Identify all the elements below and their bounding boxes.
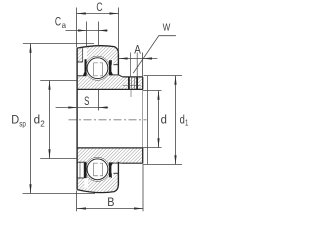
- svg-text:a: a: [62, 20, 67, 30]
- dimension line d1: [175, 76, 177, 165]
- seal lower left: [84, 163, 87, 179]
- inner ring land edges: [77, 75, 86, 77]
- svg-text:C: C: [55, 17, 61, 29]
- arrow d1 top: [174, 76, 176, 85]
- arrow C left: [77, 12, 86, 14]
- svg-text:2: 2: [40, 118, 45, 128]
- ball upper: [87, 58, 108, 79]
- dimension line B: [77, 208, 144, 210]
- extension line d1 top: [144, 75, 183, 77]
- extension line d top: [143, 90, 162, 92]
- collar / inner ring interface: [123, 84, 141, 86]
- extension line A right: [142, 53, 144, 77]
- recess below left shoulder upper: [78, 62, 83, 75]
- arrow S left: [68, 106, 77, 108]
- seal groove slot upper right: [108, 60, 113, 75]
- svg-text:C: C: [96, 2, 102, 14]
- raceway arc lower: [85, 157, 109, 181]
- extension line d2 bottom: [40, 158, 76, 160]
- dimension line d2: [49, 81, 51, 159]
- extension line S (sphere center plane): [98, 90, 100, 111]
- arrow d bottom: [157, 138, 159, 147]
- seal groove slot upper left: [83, 47, 87, 76]
- outer ring right face lower: [117, 162, 119, 185]
- arrow C right: [109, 12, 118, 14]
- bore line lower: [77, 147, 143, 149]
- bore line upper: [77, 88, 143, 90]
- arrow d1 bottom: [174, 155, 176, 164]
- raceway arc upper: [85, 56, 109, 80]
- arrow d2 bottom: [48, 149, 50, 158]
- svg-text:D: D: [11, 115, 19, 127]
- arrow A right: [143, 57, 153, 59]
- outer ring right face upper: [117, 53, 119, 75]
- arrow Ca right: [99, 29, 108, 31]
- dimension line Dsp: [30, 44, 32, 194]
- spherical OD arc lower: [77, 185, 118, 193]
- leader line W: [133, 36, 176, 73]
- svg-text:d: d: [161, 115, 167, 127]
- recess beside lower left shoulder: [84, 178, 88, 188]
- extension line d bottom: [143, 147, 162, 149]
- left side face: [76, 48, 78, 190]
- recess below right shoulder upper: [112, 65, 119, 75]
- dimension line S: [56, 107, 109, 109]
- inner ring shoulder chamfers: [118, 75, 122, 163]
- ball lower: [87, 159, 108, 180]
- raceway clearance around upper ball: [85, 56, 109, 80]
- seal groove slot lower right: [108, 163, 113, 178]
- seal groove edges: [82, 48, 84, 62]
- seal groove slot lower left: [78, 162, 84, 178]
- bearing section hatch, lower half: [77, 148, 143, 193]
- arrow Dsp bottom: [29, 184, 31, 193]
- cage cross-section lower: [94, 163, 103, 176]
- svg-text:S: S: [84, 96, 90, 108]
- extension line Dsp bottom: [23, 193, 96, 195]
- svg-text:sp: sp: [19, 118, 26, 128]
- seal upper left: [83, 59, 87, 76]
- extension line C right: [118, 8, 120, 53]
- shaft centerline: [69, 119, 147, 121]
- arrow B right: [134, 207, 143, 209]
- arrow S right: [99, 106, 108, 108]
- svg-text:A: A: [134, 44, 141, 56]
- inner ring right face lower: [142, 148, 144, 163]
- extension line B right: [142, 164, 144, 212]
- extension line Dsp top: [23, 43, 94, 45]
- extension line Ca right / sphere center plane: [98, 22, 100, 46]
- cage cross-section upper: [94, 63, 103, 76]
- recess below right shoulder lower: [112, 163, 119, 173]
- screw hole axis mark: [130, 90, 132, 97]
- arrow Dsp top: [29, 44, 31, 53]
- arrow Ca left: [78, 29, 86, 31]
- screw hole opening edges: [129, 53, 131, 77]
- raceway clearance around lower ball: [85, 157, 109, 181]
- outer ring shoulder lips: [77, 61, 83, 63]
- dimension line Ca: [66, 30, 108, 32]
- extension line C left: [76, 8, 78, 48]
- arrow A left: [119, 57, 128, 59]
- svg-text:B: B: [107, 197, 115, 209]
- inner ring right face upper: [142, 77, 144, 90]
- spherical OD arc upper: [77, 46, 118, 54]
- collar OD edge upper: [123, 76, 143, 78]
- grub screw W in collar: [123, 53, 141, 98]
- dimension line d: [158, 91, 160, 148]
- extension line d1 bottom: [144, 164, 183, 166]
- arrow B left: [77, 207, 86, 209]
- seal lower right: [109, 162, 113, 177]
- extension line Ca left: [86, 22, 88, 47]
- bearing section hatch, upper half (outer ring + inner ring + collar): [77, 46, 143, 193]
- collar OD edge lower: [123, 162, 143, 164]
- eccentric collar far-side edge: [147, 76, 149, 165]
- svg-text:W: W: [163, 23, 171, 34]
- svg-text:1: 1: [185, 117, 189, 127]
- svg-text:d: d: [34, 115, 41, 127]
- extension line B left: [76, 191, 78, 212]
- dimension line C: [77, 13, 119, 15]
- dimension line A: [119, 58, 158, 60]
- extension line d2 top: [40, 80, 76, 82]
- arrow d top: [157, 91, 159, 100]
- seal upper right: [109, 60, 113, 75]
- arrow d2 top: [48, 81, 50, 90]
- inner ring right face projection through bore: [142, 89, 144, 147]
